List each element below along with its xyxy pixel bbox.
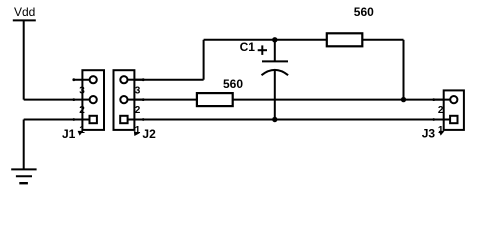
svg-text:J1: J1 <box>62 127 76 141</box>
connector J2 <box>114 70 145 136</box>
svg-text:2: 2 <box>438 105 444 116</box>
resistor R2 560 top <box>327 33 363 46</box>
connector J1 <box>72 70 104 135</box>
node J1 pin 1 tip <box>72 118 75 121</box>
wire bottom rail <box>134 119 443 121</box>
svg-text:Vdd: Vdd <box>14 5 35 19</box>
svg-text:3: 3 <box>79 85 85 96</box>
svg-text:C1: C1 <box>240 40 256 54</box>
svg-text:560: 560 <box>223 77 243 91</box>
connector J3 <box>432 90 464 135</box>
ground <box>11 169 36 183</box>
svg-text:1: 1 <box>79 125 85 136</box>
capacitor C1 <box>262 40 289 120</box>
node J1 pin 2 tip <box>72 98 75 101</box>
wire J2 pin 2 to R1 <box>134 99 197 101</box>
node junction right <box>401 97 406 102</box>
svg-text:1: 1 <box>135 125 141 136</box>
wire riser up <box>203 40 205 80</box>
wire J2 pin 3 to riser <box>134 79 203 81</box>
wire Vdd to J1 pin 2 <box>24 99 83 101</box>
node junction C1 bottom <box>272 117 277 122</box>
svg-text:560: 560 <box>354 5 374 19</box>
svg-text:J2: J2 <box>142 127 156 141</box>
wire right drop <box>403 40 405 100</box>
wire Vdd vertical <box>23 20 25 99</box>
svg-text:2: 2 <box>135 105 141 116</box>
node junction C1 top <box>272 37 277 42</box>
svg-text:J3: J3 <box>422 126 436 140</box>
wire top rail right <box>362 39 403 41</box>
wire R1 to J3 pin 2 <box>233 99 444 101</box>
power symbol Vdd bar <box>13 19 36 21</box>
resistor R1 560 middle <box>197 93 233 106</box>
wire top rail left <box>204 39 327 41</box>
C1 plus sign <box>258 45 267 55</box>
wire ground vertical <box>23 120 25 170</box>
wire ground to J1 pin 1 <box>24 119 83 121</box>
svg-text:3: 3 <box>135 85 141 96</box>
svg-text:2: 2 <box>79 105 85 116</box>
svg-text:1: 1 <box>438 125 444 136</box>
